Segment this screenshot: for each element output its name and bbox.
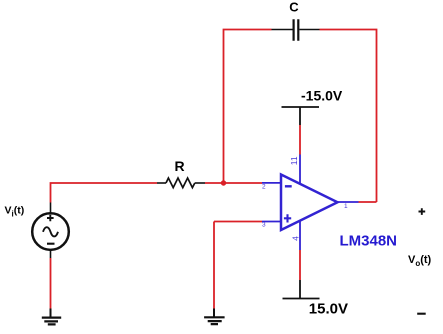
junction node at R / feedback — [221, 180, 226, 185]
resistor R1 zigzag — [166, 178, 195, 188]
wire: blue pin2 stub — [262, 182, 281, 184]
wire: output blue stub pin1 — [338, 201, 359, 203]
svg-text:3: 3 — [262, 222, 266, 229]
svg-text:LM348N: LM348N — [340, 232, 398, 249]
wire: source top red up to node then right to resistor — [51, 183, 158, 203]
capacitor C1 leads — [272, 29, 320, 31]
supply bar +15V — [283, 298, 320, 300]
op-amp plus input symbol — [284, 214, 291, 222]
wire: source bottom black stub — [50, 250, 52, 258]
source V1 sine symbol — [43, 227, 58, 236]
wire: red riser down to middle ground — [213, 222, 215, 309]
wire: blue pin3 stub — [262, 221, 281, 223]
wire: ground stub black left — [50, 309, 52, 318]
wire: pin4 black stub to supply bar — [299, 280, 301, 299]
wire: red from resistor to op-amp pin2 area — [205, 182, 262, 184]
wire: source bottom red down to ground — [50, 258, 52, 309]
svg-text:11: 11 — [289, 156, 299, 165]
resistor R1 right black lead — [195, 182, 205, 184]
svg-text:15.0V: 15.0V — [309, 301, 348, 318]
wire: red pin3 from ground riser — [214, 221, 262, 223]
op-amp minus input symbol — [285, 185, 292, 187]
wire: output red to right riser — [359, 201, 377, 203]
wire: middle ground stub black — [213, 309, 215, 318]
resistor R1 left black lead — [157, 182, 166, 184]
supply bar -15V — [282, 106, 320, 108]
wire: pin11 red segment — [299, 125, 301, 155]
output plus annotation — [419, 208, 426, 215]
source V1 circle — [32, 213, 69, 250]
ground GND1 — [42, 318, 61, 325]
wire: feedback top-left red segment from junction up and right to capacitor — [224, 30, 272, 184]
capacitor C1 plates — [294, 19, 299, 41]
svg-text:-15.0V: -15.0V — [301, 88, 343, 104]
svg-text:Vi(t): Vi(t) — [5, 205, 25, 219]
wire: pin4 blue stub from bottom edge — [299, 220, 301, 250]
wire: source top black stub — [50, 203, 52, 214]
source V1 plus sign — [47, 215, 54, 222]
ground GND2 — [204, 317, 225, 324]
svg-text:Vo(t): Vo(t) — [408, 254, 432, 268]
op-amp U1 triangle — [281, 175, 338, 231]
svg-text:R: R — [174, 158, 184, 174]
svg-text:1: 1 — [344, 203, 348, 210]
source V1 minus sign — [47, 243, 55, 245]
wire: pin4 red segment — [299, 250, 301, 280]
svg-text:2: 2 — [262, 184, 266, 191]
svg-text:C: C — [289, 0, 299, 14]
svg-text:4: 4 — [291, 236, 301, 241]
wire: pin11 black stub to supply bar — [299, 107, 301, 125]
wire: pin11 blue stub into top edge — [299, 155, 301, 185]
wire: feedback top-right red segment from capacitor right to output — [320, 30, 377, 203]
output minus annotation — [417, 313, 426, 315]
